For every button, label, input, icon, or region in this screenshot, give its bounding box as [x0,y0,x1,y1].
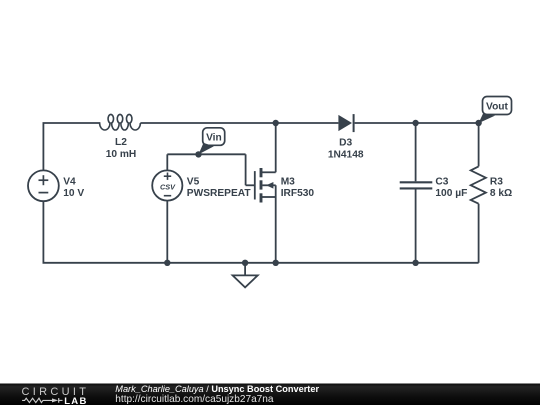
svg-text:100 µF: 100 µF [435,188,467,199]
wire R3 bottom lead [478,204,480,263]
wire top horizontal left of L2 [43,122,101,124]
svg-text:Vout: Vout [486,102,508,113]
Vout flag box [483,97,512,115]
svg-text:V4: V4 [63,176,76,187]
M3 drain stub [261,171,276,173]
svg-text:Vin: Vin [206,132,222,143]
wire gate drop vertical [245,154,247,185]
svg-text:PWSREPEAT: PWSREPEAT [187,188,252,199]
V4 circle body [28,170,59,201]
inductor L2 [100,114,141,159]
M3 channel source segment [260,193,263,202]
logo diode bar [58,398,60,403]
ground triangle [233,275,258,287]
diode D3 anode triangle [338,115,352,131]
C3 top plate [400,181,433,183]
node M3 drain junction [273,120,279,126]
svg-text:C3: C3 [435,177,448,188]
inductor L2 coil [100,114,141,130]
V5 circle body [152,170,182,200]
voltage source V4 [28,170,84,201]
node Vin junction [195,151,201,157]
R3 zigzag [471,166,486,203]
svg-text:LAB: LAB [64,396,87,405]
svg-text:http://circuitlab.com/ca5ujzb2: http://circuitlab.com/ca5ujzb27a7na [115,394,274,405]
svg-text:1N4148: 1N4148 [328,149,364,160]
node C3 bottom junction [412,260,418,266]
voltage source V5 [152,170,251,200]
svg-text:CSV: CSV [160,182,176,191]
wire V5 top lead [166,154,168,170]
ground stub [244,263,246,276]
node C3 top junction [412,120,418,126]
CircuitLab logo [22,386,90,405]
flag Vout [479,97,512,124]
M3 body stub [262,184,275,186]
V4 minus sign [39,192,49,194]
flag Vin [199,128,225,155]
capacitor C3 [400,177,468,200]
logo wire to LAB [59,399,63,401]
transistor M3 (NMOS IRF530) [255,168,315,203]
svg-text:10 V: 10 V [63,188,84,199]
C3 bottom plate [400,187,433,189]
svg-text:V5: V5 [187,176,200,187]
node ground junction [242,260,248,266]
diode D3 cathode bar [353,114,355,132]
wire V5 bottom lead [166,201,168,263]
M3 body arrow [266,182,273,189]
Vin flag box [203,128,225,146]
wire C3 bottom lead [415,189,417,262]
Vin flag pointer tail [199,143,214,155]
svg-text:D3: D3 [339,137,352,148]
svg-text:R3: R3 [490,177,503,188]
svg-text:Mark_Charlie_Caluya / Unsync B: Mark_Charlie_Caluya / Unsync Boost Conve… [115,384,319,394]
wire gate lead [246,184,255,186]
svg-text:IRF530: IRF530 [281,188,315,199]
wire V4 bottom lead [42,201,44,263]
wire R3 top lead [478,123,480,166]
wire M3 drain up [275,123,277,172]
M3 channel drain segment [260,168,263,177]
logo resistor zigzag [22,398,52,402]
wire C3 top lead [415,123,417,181]
wire M3 source down [275,185,277,262]
node M3 source junction [273,260,279,266]
node V5 bottom junction [164,260,170,266]
V5 plus sign [164,175,171,177]
wire V4 top lead [42,123,44,170]
ground [233,263,258,288]
node Vout junction [475,120,481,126]
M3 channel body segment [260,180,263,189]
logo diode triangle [52,398,58,402]
diode D3 [328,114,364,160]
svg-text:M3: M3 [281,176,295,187]
svg-text:L2: L2 [115,137,127,148]
svg-text:10 mH: 10 mH [106,149,137,160]
wire bottom horizontal [43,262,479,264]
V4 plus sign [39,179,49,181]
M3 gate bar [254,171,256,199]
svg-text:8 kΩ: 8 kΩ [490,188,512,199]
wire V5 to gate horizontal [167,153,245,155]
Vout flag pointer tail [479,114,495,124]
wire top horizontal L2 to D3 [140,122,338,124]
V5 minus sign [164,195,171,197]
M3 source stub [261,196,276,198]
resistor R3 [471,166,513,203]
wire top horizontal D3 to Vout node [355,122,479,124]
